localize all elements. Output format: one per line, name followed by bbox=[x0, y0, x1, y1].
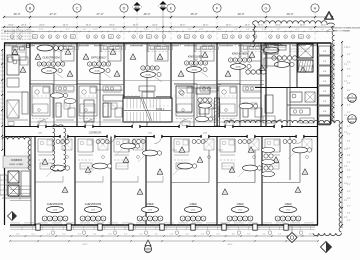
mid band dashes bbox=[33, 96, 262, 106]
svg-text:7'-3": 7'-3" bbox=[16, 29, 20, 31]
svg-text:4'-6": 4'-6" bbox=[218, 29, 222, 31]
bath partition x=54 bbox=[53, 43, 55, 127]
svg-text:5'-0: 5'-0 bbox=[263, 233, 266, 235]
bed unit 1 bbox=[57, 46, 79, 61]
svg-text:3'-2": 3'-2" bbox=[347, 213, 351, 215]
svg-text:3'-2": 3'-2" bbox=[347, 141, 351, 143]
svg-text:1'-2: 1'-2 bbox=[1, 99, 4, 101]
svg-text:1'-2: 1'-2 bbox=[1, 115, 4, 117]
svg-text:1'-2: 1'-2 bbox=[1, 123, 4, 125]
svg-text:2'-1": 2'-1" bbox=[66, 29, 70, 31]
svg-text:101: 101 bbox=[71, 36, 74, 38]
svg-text:3'-2": 3'-2" bbox=[347, 97, 351, 99]
svg-text:4'-6": 4'-6" bbox=[113, 29, 117, 31]
lower mid clusters bbox=[46, 143, 312, 177]
bottom dimension line 2 bbox=[9, 240, 319, 246]
bed unit 5 bbox=[244, 46, 266, 61]
svg-text:ELEV. LOBBY: ELEV. LOBBY bbox=[10, 164, 24, 166]
grid bubble E bbox=[167, 4, 175, 12]
svg-text:24'-0": 24'-0" bbox=[82, 244, 87, 246]
corridor label bbox=[38, 133, 207, 135]
svg-text:5'-0": 5'-0" bbox=[83, 29, 87, 31]
left entry steps bbox=[2, 137, 31, 225]
tertiary dimension line bbox=[4, 29, 332, 33]
svg-text:3'-2": 3'-2" bbox=[347, 126, 351, 128]
svg-text:1 BED: 1 BED bbox=[284, 203, 291, 206]
mid cluster B bbox=[196, 116, 213, 121]
unit cluster 1 bbox=[37, 55, 65, 78]
svg-text:B: B bbox=[29, 7, 32, 11]
svg-text:23'-6": 23'-6" bbox=[152, 24, 158, 26]
lower unit interior x=171 bbox=[174, 139, 214, 169]
svg-text:3'-2": 3'-2" bbox=[347, 220, 351, 222]
svg-text:1'-2: 1'-2 bbox=[1, 67, 4, 69]
svg-text:STAIR 2: STAIR 2 bbox=[156, 108, 165, 111]
svg-text:1'-2: 1'-2 bbox=[1, 71, 4, 73]
svg-text:2'-1": 2'-1" bbox=[171, 29, 175, 31]
svg-text:23'-6": 23'-6" bbox=[21, 24, 27, 26]
svg-text:9'-2": 9'-2" bbox=[277, 29, 281, 31]
right annex cell column bbox=[319, 46, 330, 125]
svg-text:KITCHEN: KITCHEN bbox=[270, 43, 282, 47]
svg-text:5'-0: 5'-0 bbox=[170, 233, 173, 235]
lower partial wall x=290 bbox=[289, 137, 291, 181]
window tag row bbox=[10, 35, 310, 39]
corridor upper wall bbox=[5, 126, 319, 128]
svg-text:5'-0: 5'-0 bbox=[93, 233, 96, 235]
svg-text:3'-2": 3'-2" bbox=[347, 83, 351, 85]
svg-text:3'-2": 3'-2" bbox=[347, 61, 351, 63]
svg-text:101: 101 bbox=[33, 36, 36, 38]
left exterior wall bbox=[4, 43, 6, 225]
demising wall x=217 bbox=[216, 43, 218, 127]
svg-text:GUESTROOM: GUESTROOM bbox=[42, 55, 59, 59]
svg-text:201A: 201A bbox=[94, 70, 100, 73]
lower demising wall x=171 bbox=[170, 137, 172, 226]
svg-text:E: E bbox=[170, 7, 173, 11]
small cloud lobby bbox=[2, 137, 31, 170]
stair 2 bbox=[123, 86, 172, 122]
mid zone horizontal walls bbox=[30, 81, 264, 123]
unit G-H cluster bbox=[272, 56, 297, 68]
svg-text:23'-6": 23'-6" bbox=[300, 24, 306, 26]
svg-text:23'-6": 23'-6" bbox=[203, 24, 209, 26]
svg-text:101: 101 bbox=[185, 36, 188, 38]
right dimension string bbox=[341, 41, 348, 228]
svg-text:49'-0": 49'-0" bbox=[286, 12, 293, 16]
svg-text:3'-11": 3'-11" bbox=[144, 29, 149, 31]
svg-text:23'-6": 23'-6" bbox=[258, 24, 264, 26]
revision cloud bottom bbox=[224, 120, 342, 235]
north arrow top bbox=[324, 11, 334, 20]
lower demising wall x=35 bbox=[34, 137, 36, 226]
svg-text:3'-2": 3'-2" bbox=[347, 198, 351, 200]
svg-text:23'-6": 23'-6" bbox=[226, 24, 232, 26]
svg-text:23'-6": 23'-6" bbox=[180, 24, 186, 26]
bath partition x=240 bbox=[239, 43, 241, 127]
lower room label 240 bbox=[227, 203, 253, 221]
svg-text:101: 101 bbox=[109, 36, 112, 38]
bottom exterior wall bbox=[10, 224, 318, 226]
svg-text:KING/QUEEN: KING/QUEEN bbox=[188, 54, 204, 58]
svg-text:1'-2: 1'-2 bbox=[1, 75, 4, 77]
right tiny text column bbox=[347, 47, 351, 222]
svg-text:7'-3": 7'-3" bbox=[309, 29, 313, 31]
lower unit interior x=262 bbox=[265, 139, 312, 169]
unit interior x=217 bbox=[217, 84, 264, 126]
left stoop bbox=[0, 175, 7, 195]
svg-text:NOTE: ALL DIMS TO FACE OF STUD: NOTE: ALL DIMS TO FACE OF STUD bbox=[1, 35, 32, 38]
closet partitions upper bbox=[54, 43, 310, 52]
right edge markers bbox=[348, 94, 357, 124]
svg-text:5'-0: 5'-0 bbox=[278, 233, 281, 235]
svg-text:5'-0: 5'-0 bbox=[47, 233, 50, 235]
balcony piers bbox=[36, 224, 288, 230]
lower demising wall x=111 bbox=[110, 137, 112, 226]
svg-text:1'-2: 1'-2 bbox=[1, 91, 4, 93]
svg-text:3'-11": 3'-11" bbox=[262, 29, 267, 31]
grid bubble H bbox=[311, 4, 319, 12]
svg-text:1'-2: 1'-2 bbox=[1, 83, 4, 85]
section marker 1 bbox=[132, 2, 142, 12]
balcony tag circles bbox=[51, 231, 303, 235]
svg-text:201A: 201A bbox=[191, 69, 197, 72]
plumbing wall hatch bbox=[214, 98, 219, 126]
right secondary dim bbox=[333, 42, 335, 124]
lower room label 55 bbox=[42, 203, 68, 221]
svg-text:23'-6": 23'-6" bbox=[86, 24, 92, 26]
svg-text:5'-0": 5'-0" bbox=[321, 29, 325, 31]
svg-text:3'-2": 3'-2" bbox=[347, 162, 351, 164]
svg-text:A407: A407 bbox=[350, 100, 354, 103]
svg-text:7'-3": 7'-3" bbox=[234, 29, 238, 31]
lower demising wall x=75 bbox=[74, 137, 76, 226]
left unit bed bbox=[12, 44, 30, 61]
right unit walls bbox=[255, 43, 317, 127]
mid details right of stair bbox=[176, 86, 218, 126]
balcony rail lines bbox=[10, 226, 315, 229]
svg-text:5'-0: 5'-0 bbox=[232, 233, 235, 235]
unit interior x=30 bbox=[30, 84, 77, 126]
svg-text:1'-2: 1'-2 bbox=[1, 79, 4, 81]
bottom dimension line 1 bbox=[9, 233, 319, 236]
mid-left pills bbox=[51, 93, 77, 104]
svg-text:3'-2": 3'-2" bbox=[347, 184, 351, 186]
lower demising wall x=217 bbox=[216, 137, 218, 226]
corridor lower wall bbox=[5, 136, 319, 138]
lower unit interior x=35 bbox=[38, 139, 72, 169]
svg-text:36'-0": 36'-0" bbox=[13, 12, 20, 16]
right unit counters bbox=[262, 45, 286, 68]
svg-text:5'-0: 5'-0 bbox=[124, 233, 127, 235]
bed unit 4 bbox=[197, 46, 219, 61]
grid bubble F bbox=[213, 4, 221, 12]
bed unit 3 bbox=[151, 46, 173, 61]
svg-text:5'-0: 5'-0 bbox=[32, 233, 35, 235]
right exterior wall bbox=[317, 43, 319, 225]
secondary dimension line bbox=[3, 24, 333, 28]
unit interior x=77 bbox=[77, 84, 124, 126]
grid bubble C bbox=[73, 4, 81, 12]
small cloud left corridor bbox=[53, 125, 66, 171]
svg-text:3'-2": 3'-2" bbox=[347, 90, 351, 92]
grid bubble G bbox=[262, 4, 270, 12]
svg-text:1 BED: 1 BED bbox=[189, 203, 196, 206]
grid leader lines bbox=[30, 10, 315, 43]
bath partition x=147 bbox=[146, 43, 148, 127]
svg-text:23'-6": 23'-6" bbox=[275, 24, 281, 26]
svg-text:1 BED: 1 BED bbox=[236, 203, 243, 206]
svg-text:101: 101 bbox=[147, 36, 150, 38]
svg-text:1'-2: 1'-2 bbox=[1, 87, 4, 89]
right unit shafts bbox=[264, 44, 314, 72]
svg-text:3'-2": 3'-2" bbox=[347, 169, 351, 171]
lower room label 193 bbox=[180, 203, 206, 221]
svg-text:101: 101 bbox=[223, 36, 226, 38]
lower room label 150 bbox=[137, 203, 163, 221]
svg-text:5'-0": 5'-0" bbox=[188, 29, 192, 31]
svg-text:3'-2": 3'-2" bbox=[347, 177, 351, 179]
svg-text:49'-0": 49'-0" bbox=[237, 12, 244, 16]
svg-text:3'-2": 3'-2" bbox=[347, 205, 351, 207]
svg-text:5'-0: 5'-0 bbox=[309, 233, 312, 235]
bed unit 2 bbox=[104, 46, 126, 61]
left dimension column bbox=[1, 49, 4, 151]
svg-text:101: 101 bbox=[299, 36, 302, 38]
svg-text:23'-6": 23'-6" bbox=[245, 24, 251, 26]
bath partition x=290 bbox=[289, 43, 291, 127]
revision cloud top bbox=[253, 21, 335, 122]
common elevator lobby bbox=[3, 156, 30, 168]
window mullion ticks bbox=[9, 43, 313, 46]
svg-text:NOTE: ALL DIMS TO FACE OF STUD: NOTE: ALL DIMS TO FACE OF STUD bbox=[1, 32, 32, 35]
svg-text:COMMON: COMMON bbox=[11, 159, 22, 162]
lower room label 288 bbox=[275, 203, 301, 221]
svg-text:3'-2": 3'-2" bbox=[347, 155, 351, 157]
svg-text:NOTE: ALL DIMS TO FACE OF STUD: NOTE: ALL DIMS TO FACE OF STUD bbox=[1, 38, 32, 41]
lower room partitions bbox=[35, 150, 300, 183]
unit interior x=174 bbox=[174, 84, 221, 126]
svg-text:1'-2: 1'-2 bbox=[1, 63, 4, 65]
svg-text:201A: 201A bbox=[145, 74, 151, 77]
corner hatched diamond bbox=[321, 242, 332, 253]
demising wall x=77 bbox=[76, 43, 78, 127]
svg-text:5'-0: 5'-0 bbox=[216, 233, 219, 235]
grid bubble D bbox=[120, 4, 128, 12]
demising wall x=124 (stair side) bbox=[123, 43, 125, 122]
svg-text:5'-0: 5'-0 bbox=[78, 233, 81, 235]
mid cluster A bbox=[198, 98, 212, 108]
demising wall x=171 (stair side) bbox=[170, 43, 172, 122]
unit cluster 5 bbox=[228, 51, 252, 74]
svg-text:5'-0: 5'-0 bbox=[247, 233, 250, 235]
svg-text:5'-0: 5'-0 bbox=[16, 233, 19, 235]
svg-text:3'-2": 3'-2" bbox=[347, 47, 351, 49]
svg-text:D: D bbox=[123, 7, 126, 11]
svg-text:5'-0": 5'-0" bbox=[246, 29, 250, 31]
svg-text:3'-2": 3'-2" bbox=[347, 191, 351, 193]
svg-text:1'-2: 1'-2 bbox=[1, 103, 4, 105]
mid-left interior details bbox=[84, 90, 123, 122]
right annex wall bbox=[318, 43, 332, 124]
svg-text:EXIST. TO REMAIN: EXIST. TO REMAIN bbox=[333, 30, 350, 33]
primary dimension line bbox=[3, 12, 333, 18]
top exterior wall bbox=[4, 43, 331, 46]
svg-text:5'-0: 5'-0 bbox=[186, 233, 189, 235]
bath partition x=100 bbox=[99, 43, 101, 127]
lower demising wall x=262 bbox=[261, 137, 263, 226]
svg-text:3'-2": 3'-2" bbox=[347, 76, 351, 78]
lower keynote triangles bbox=[42, 147, 308, 194]
svg-text:GUESTROOM: GUESTROOM bbox=[47, 203, 63, 206]
svg-text:2'-1": 2'-1" bbox=[123, 29, 127, 31]
svg-text:KING/QUEEN: KING/QUEEN bbox=[232, 51, 248, 55]
svg-text:5'-0: 5'-0 bbox=[109, 233, 112, 235]
svg-text:1'-2: 1'-2 bbox=[1, 119, 4, 121]
unit cluster 6 bbox=[263, 43, 282, 54]
top-left note text bbox=[1, 26, 32, 41]
demising wall x=266 bbox=[265, 43, 267, 127]
bath partition x=194 bbox=[193, 43, 195, 127]
grid bubble B bbox=[26, 4, 34, 12]
bottom detail marker bbox=[144, 240, 151, 253]
svg-text:3'-11": 3'-11" bbox=[199, 29, 204, 31]
svg-text:1'-2: 1'-2 bbox=[1, 59, 4, 61]
svg-text:3'-2": 3'-2" bbox=[347, 112, 351, 114]
svg-text:201A: 201A bbox=[235, 66, 241, 69]
left marker diamond bbox=[8, 212, 17, 221]
svg-text:3'-2": 3'-2" bbox=[347, 119, 351, 121]
demising wall x=30 bbox=[29, 43, 31, 127]
unit cluster 3 bbox=[141, 66, 163, 82]
svg-text:1'-2: 1'-2 bbox=[1, 55, 4, 57]
lower unit interior x=111 bbox=[114, 139, 145, 169]
svg-text:1'-2: 1'-2 bbox=[1, 95, 4, 97]
lower room label 93 bbox=[80, 203, 106, 221]
svg-text:47'-0": 47'-0" bbox=[96, 12, 103, 16]
svg-text:23'-6": 23'-6" bbox=[39, 24, 45, 26]
unit cluster 2 bbox=[87, 55, 111, 78]
right tag column bbox=[262, 147, 275, 176]
svg-text:46'-0": 46'-0" bbox=[190, 12, 197, 16]
svg-text:23'-6": 23'-6" bbox=[63, 24, 69, 26]
svg-text:23'-6": 23'-6" bbox=[8, 24, 14, 26]
section marker 2 bbox=[158, 1, 168, 11]
left end interior bbox=[7, 55, 28, 126]
svg-text:5'-0: 5'-0 bbox=[201, 233, 204, 235]
svg-text:2'-1": 2'-1" bbox=[296, 29, 300, 31]
svg-text:201A: 201A bbox=[46, 70, 52, 73]
svg-text:A500: A500 bbox=[146, 250, 150, 253]
lower unit interior x=217 bbox=[220, 139, 259, 169]
svg-text:23'-6": 23'-6" bbox=[133, 24, 139, 26]
svg-text:3'-2": 3'-2" bbox=[347, 69, 351, 71]
svg-text:CORRIDOR: CORRIDOR bbox=[89, 133, 102, 135]
svg-text:5'-0: 5'-0 bbox=[155, 233, 158, 235]
svg-text:5'-0": 5'-0" bbox=[26, 29, 30, 31]
unit cluster 4 bbox=[184, 54, 208, 77]
svg-text:H: H bbox=[314, 7, 317, 11]
svg-text:1 BED: 1 BED bbox=[146, 203, 153, 206]
svg-text:G: G bbox=[265, 7, 268, 11]
svg-text:1'-2: 1'-2 bbox=[1, 111, 4, 113]
svg-text:46'-0": 46'-0" bbox=[143, 12, 150, 16]
corridor doors bbox=[37, 120, 304, 144]
svg-text:47'-0": 47'-0" bbox=[49, 12, 56, 16]
svg-text:3'-2": 3'-2" bbox=[347, 105, 351, 107]
right unit lower fixtures bbox=[239, 92, 315, 123]
lower demising wall x=146 bbox=[145, 137, 147, 226]
svg-text:23'-6": 23'-6" bbox=[109, 24, 115, 26]
svg-text:3'-2": 3'-2" bbox=[347, 133, 351, 135]
svg-text:3'-2": 3'-2" bbox=[347, 148, 351, 150]
keynote triangles upper bbox=[12, 49, 306, 76]
svg-text:5'-0: 5'-0 bbox=[62, 233, 65, 235]
svg-text:EFFICIENCY: EFFICIENCY bbox=[91, 55, 107, 59]
svg-text:23'-6": 23'-6" bbox=[321, 24, 327, 26]
svg-text:EXISTING STORAGE BUILDING: EXISTING STORAGE BUILDING bbox=[333, 27, 360, 30]
svg-text:3'-11": 3'-11" bbox=[39, 29, 44, 31]
svg-text:9'-2": 9'-2" bbox=[156, 29, 160, 31]
unit cluster 1b bbox=[37, 45, 63, 51]
svg-text:GUESTROOM: GUESTROOM bbox=[85, 203, 101, 206]
elevator shafts bbox=[8, 171, 30, 196]
right room circles bbox=[246, 70, 266, 74]
svg-text:24'-0": 24'-0" bbox=[227, 244, 232, 246]
svg-text:1'-2: 1'-2 bbox=[1, 107, 4, 109]
svg-text:3'-11": 3'-11" bbox=[93, 29, 98, 31]
lower unit interior x=75 bbox=[78, 139, 109, 169]
balcony door ticks bbox=[22, 224, 310, 229]
svg-text:3'-2": 3'-2" bbox=[347, 54, 351, 56]
bottom diamond marker bbox=[287, 225, 297, 243]
revision note bbox=[326, 27, 360, 33]
svg-text:C: C bbox=[76, 7, 79, 11]
svg-text:5'-0: 5'-0 bbox=[139, 233, 142, 235]
